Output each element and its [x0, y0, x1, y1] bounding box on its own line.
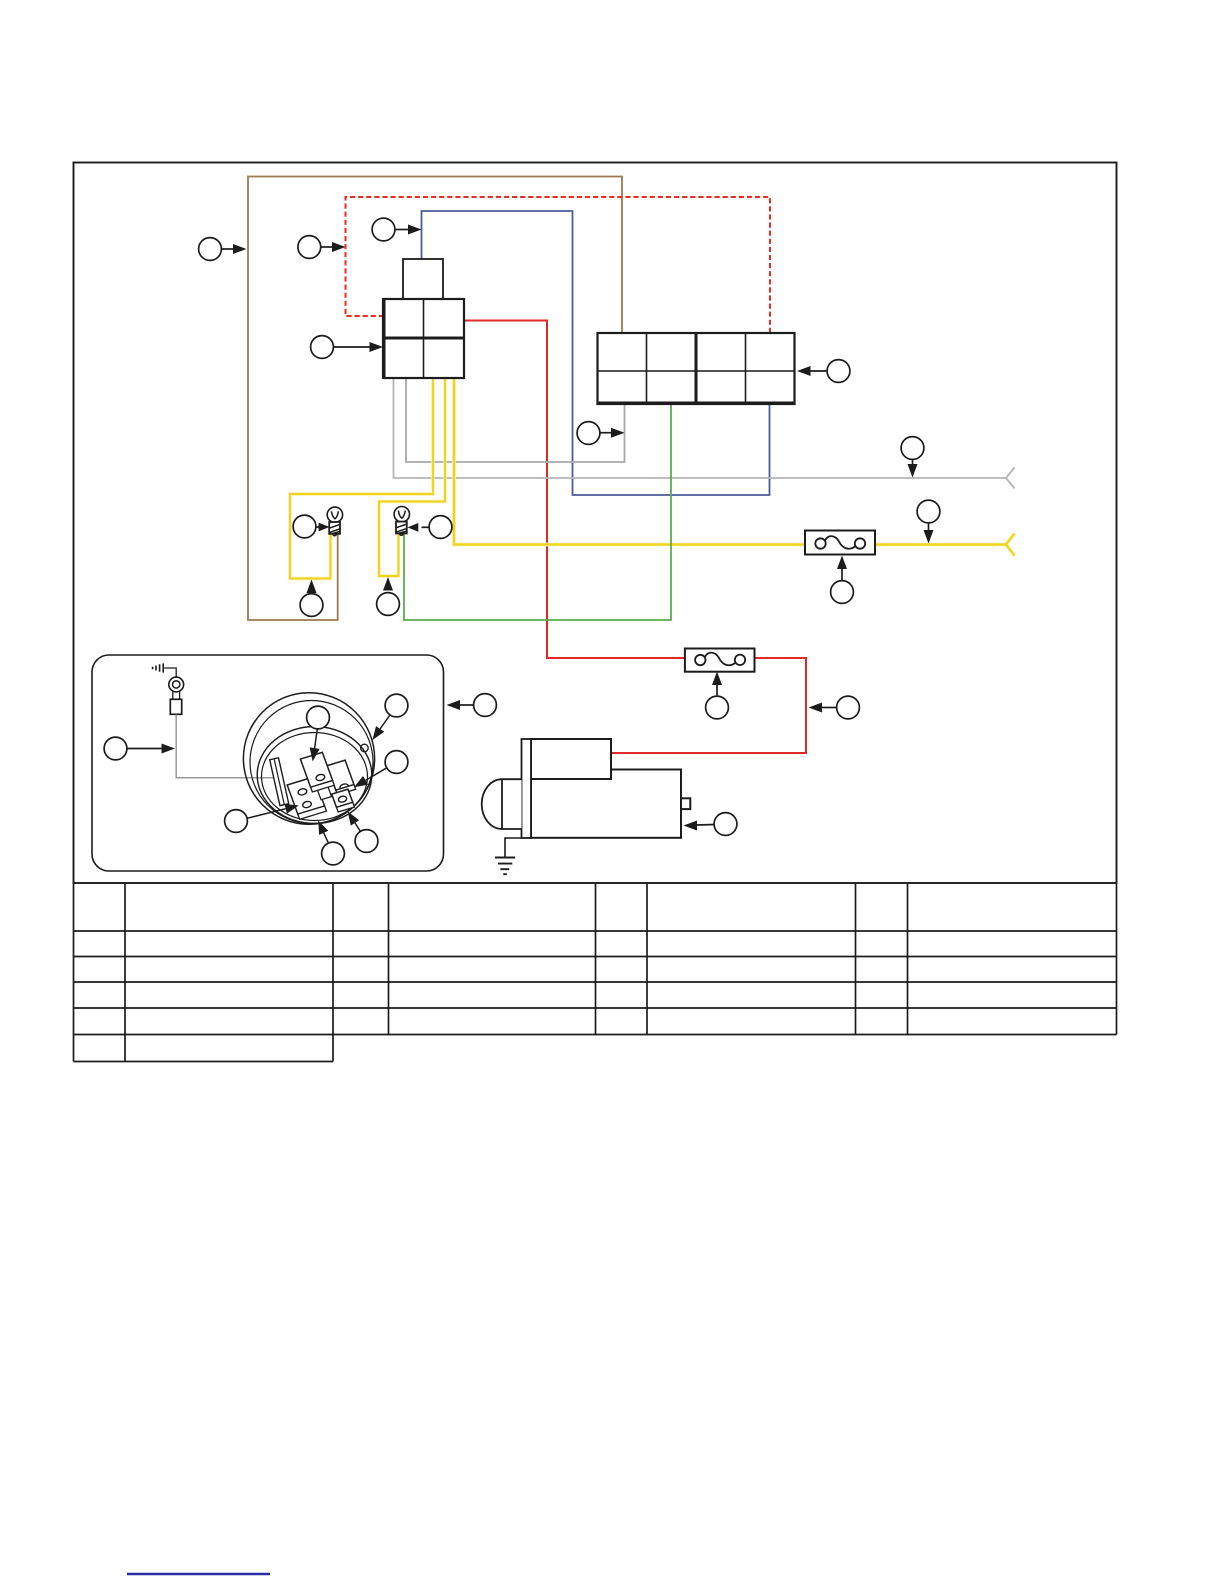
connector J1 (2x2)	[383, 299, 464, 378]
callout 5 arrow (connector J2)	[810, 370, 827, 372]
callout balloon 6	[577, 422, 600, 445]
wire red (connector J1 to fuse F2 to starter solenoid)	[463, 321, 806, 754]
callout 14 arrow (fuse F2)	[716, 685, 718, 697]
callout 9 arrow (lamp1)	[316, 526, 320, 528]
callout 10 arrow (lamp2)	[422, 526, 430, 528]
callout balloon 2	[298, 236, 321, 259]
wire blue (connector J1 top to connector J2 pin8)	[422, 211, 770, 495]
callout K1 arrow (detail gray wire)	[127, 748, 163, 750]
callout balloon 17	[474, 694, 497, 717]
wire gray fork tips	[1006, 468, 1015, 489]
switch terminal blade lower-right	[332, 789, 355, 812]
callout balloon K4	[385, 751, 408, 774]
callout 1 arrow (brown wire)	[222, 248, 235, 250]
connector J1 top box	[403, 259, 443, 299]
callout 8 arrow (yellow long wire)	[928, 523, 930, 531]
parts table	[74, 883, 1117, 1062]
callout K2 arrow (top blade)	[315, 729, 318, 749]
callout balloon 3	[372, 218, 395, 241]
callout balloon 14	[706, 696, 729, 719]
callout 16 arrow (starter motor)	[697, 824, 715, 827]
footer link line	[127, 1573, 270, 1576]
ground symbol	[495, 858, 515, 875]
callout balloon 16	[714, 813, 737, 836]
callout 17 arrow (key switch box)	[460, 704, 474, 706]
wire yellow 2 (connector J1 to lamp2)	[379, 377, 445, 576]
wire red dashed (connector J1 to connector J2)	[346, 197, 771, 333]
wire yellow 3 (connector J1 through fuse F1 to fork)	[454, 377, 1015, 556]
connector J2 (2x4)	[598, 333, 795, 404]
terminal sleeve	[170, 699, 181, 714]
wire brown (lamp1 to connector J2 pin1 loop)	[248, 177, 622, 621]
wire yellow 3 halo	[454, 377, 1015, 556]
callout balloon 8	[917, 500, 940, 523]
ring terminal	[169, 677, 184, 692]
ground wire	[505, 838, 522, 857]
starter motor	[482, 739, 691, 874]
wire yellow 1 (connector J1 to lamp1)	[290, 377, 433, 579]
gray lead wire	[176, 715, 277, 778]
switch terminal blade top	[300, 752, 337, 801]
starter nose cone	[482, 779, 522, 829]
lamp 2 bulb	[394, 507, 409, 536]
crimp splice mark	[153, 663, 164, 672]
callout 2 arrow (red dashed wire)	[321, 246, 333, 248]
wire yellow 1 halo	[290, 377, 433, 579]
callout balloon 4	[311, 336, 334, 359]
callout 4 arrow (connector J1)	[334, 346, 371, 348]
callout K7 arrow (bottom right blade)	[355, 823, 360, 832]
starter bracket	[522, 739, 532, 838]
starter motor body	[531, 770, 681, 838]
callout 3 arrow (blue wire)	[395, 229, 409, 231]
key switch housing	[243, 693, 374, 825]
callout balloon K2	[307, 706, 330, 729]
callout K6 arrow (bottom blade)	[324, 833, 329, 843]
callout balloon 5	[827, 360, 850, 383]
callout K3 arrow (housing rim)	[380, 715, 390, 729]
switch terminal blade lower-left	[287, 777, 326, 819]
drawing border frame	[74, 163, 1117, 884]
callout 6 arrow (gray short wire)	[600, 432, 612, 434]
callout 12 arrow (yellow2 wire)	[383, 577, 393, 591]
callout 13 arrow (fuse F1)	[841, 569, 843, 581]
callout balloon 9	[293, 515, 316, 538]
callout balloon 13	[831, 581, 854, 604]
starter solenoid	[531, 739, 611, 779]
starter terminal tab	[681, 798, 690, 809]
wire gray long (connector J1 to harness fork)	[394, 377, 1007, 478]
lamp 1 bulb	[327, 507, 342, 536]
callout balloon 12	[377, 593, 400, 616]
callout balloon 10	[429, 516, 452, 539]
callout balloon K3	[385, 694, 408, 717]
callout 15 arrow (red wire)	[822, 707, 837, 709]
wire gray short (connector J1 to connector J2 pin5)	[406, 377, 625, 462]
fuse F2 (on red wire)	[685, 649, 755, 672]
fuse F1 (on yellow wire)	[805, 531, 875, 555]
callout balloon K6	[322, 842, 345, 865]
callout balloon 7	[901, 437, 924, 460]
callout balloon 1	[199, 238, 222, 261]
callout K5 arrow (keyway)	[247, 809, 286, 819]
keyway blade	[270, 758, 289, 806]
wire green (lamp2 to connector J2 pin6)	[404, 404, 671, 620]
callout balloon 11	[300, 594, 323, 617]
switch terminal blade right	[327, 760, 356, 795]
callout 11 arrow (yellow1 wire)	[307, 580, 317, 594]
callout balloon K5	[225, 810, 248, 833]
callout balloon K1	[104, 737, 127, 760]
callout balloon 15	[837, 696, 860, 719]
key switch detail box	[92, 655, 444, 871]
callout balloon K7	[355, 830, 378, 853]
wire yellow 2 halo	[379, 377, 445, 576]
callout 7 arrow (gray long wire)	[912, 460, 914, 466]
callout K4 arrow (right blade)	[366, 768, 387, 781]
